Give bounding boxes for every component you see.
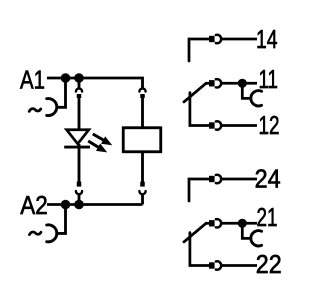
socket half contact 14 xyxy=(216,35,221,43)
socket half (coil branch bottom, opening up) xyxy=(139,191,145,194)
test socket 11 (arc opening right) xyxy=(251,91,262,106)
contact 12 wire (NC) xyxy=(190,93,209,126)
junction dot A1-a xyxy=(61,73,71,83)
wire socket to terminal 12 xyxy=(221,124,257,127)
svg-text:A1: A1 xyxy=(20,65,45,95)
wire plug to LED anode xyxy=(78,98,81,130)
junction dot A2-a xyxy=(61,200,71,210)
contact 24 wire (NO) xyxy=(189,179,209,201)
plug half contact 12 xyxy=(209,122,215,128)
wire A1 rail xyxy=(47,78,143,89)
socket AC A2 (arc opening left) xyxy=(47,225,57,242)
contact lever 11 (movable) xyxy=(184,83,206,102)
plug half contact 14 xyxy=(209,36,215,42)
wire lever to plug 21 xyxy=(206,222,210,225)
wire from A2 dot to AC socket xyxy=(56,205,66,234)
socket half contact 22 xyxy=(216,261,221,269)
junction dot A1-b xyxy=(74,73,84,83)
svg-text:A2: A2 xyxy=(20,190,48,220)
wire socket to terminal 14 xyxy=(221,38,257,41)
plug half (LED branch bottom) xyxy=(77,182,82,187)
wire A1 dot to LED plug xyxy=(78,78,81,89)
plug half (coil branch bottom) xyxy=(140,182,145,187)
LED D1 triangle xyxy=(67,130,89,144)
LED emission arrow 1 xyxy=(93,134,112,145)
svg-text:14: 14 xyxy=(256,24,278,54)
wire socket to terminal 24 xyxy=(221,178,257,181)
wire lever to plug 11 xyxy=(206,82,210,85)
wire coil to plug xyxy=(141,153,144,183)
plug half contact 24 xyxy=(209,176,215,182)
wire socket to A2 rail xyxy=(141,194,144,205)
wire socket to terminal 11 xyxy=(221,82,257,85)
junction dot A2-b xyxy=(74,200,84,210)
wire from A1 dot to AC socket xyxy=(56,78,66,107)
plug half (LED branch) xyxy=(77,94,82,98)
AC tilde A1 xyxy=(29,109,41,112)
plug half contact 11 xyxy=(209,80,215,86)
svg-text:11: 11 xyxy=(259,64,279,94)
plug half contact 22 xyxy=(209,262,215,268)
socket half contact 24 xyxy=(216,175,221,183)
plug half (coil branch top) xyxy=(140,94,145,98)
wire LED cathode down xyxy=(78,144,81,183)
junction dot 21 xyxy=(238,219,247,228)
contact 14 wire (NO) xyxy=(189,39,209,61)
LED emission arrow 2 xyxy=(88,141,107,152)
wire plug to coil xyxy=(141,98,144,128)
wire A2 rail xyxy=(47,203,143,206)
contact lever 21 (movable) xyxy=(184,223,206,242)
wire socket to terminal 22 xyxy=(221,264,257,267)
test socket 21 (arc opening right) xyxy=(251,231,262,246)
relay coil K1 xyxy=(123,128,161,152)
socket half (LED branch bottom, opening up) xyxy=(76,191,82,194)
wire socket to terminal 21 xyxy=(221,222,257,225)
socket half (coil branch top) xyxy=(139,88,145,91)
socket half contact 11 xyxy=(216,79,221,87)
svg-text:12: 12 xyxy=(259,110,280,140)
socket half (coil circuit, LED branch) xyxy=(76,88,82,91)
wire socket to A2 dot xyxy=(78,194,81,205)
wire dot 21 to test socket xyxy=(242,223,251,238)
junction dot 11 xyxy=(238,79,247,88)
LED D1 cathode bar xyxy=(64,146,90,149)
plug half contact 21 xyxy=(209,220,215,226)
socket AC A1 (arc opening left) xyxy=(47,99,57,116)
AC tilde A2 xyxy=(29,232,41,235)
svg-text:24: 24 xyxy=(255,164,281,194)
socket half contact 21 xyxy=(216,219,221,227)
wire dot 11 to test socket xyxy=(242,83,251,98)
svg-text:21: 21 xyxy=(257,202,278,232)
svg-text:22: 22 xyxy=(256,249,282,279)
socket half contact 12 xyxy=(216,121,221,129)
contact 22 wire (NC) xyxy=(190,233,209,266)
